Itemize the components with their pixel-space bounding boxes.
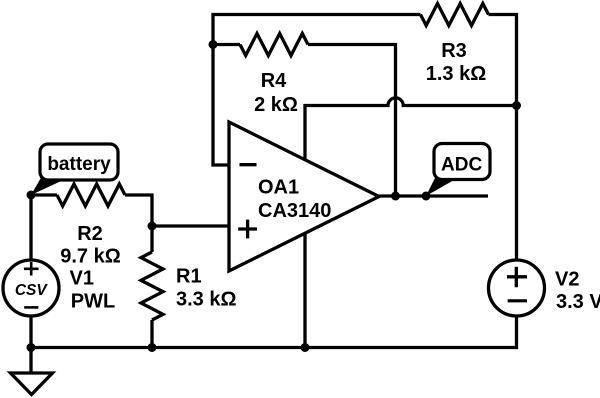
wire V1 top (29, 195, 32, 260)
node ground rail R1 dot (148, 343, 157, 352)
wire op-amp V+ pin with hop over R4 leg (305, 98, 517, 160)
wire op-amp output (379, 194, 488, 197)
svg-text:3.3 V: 3.3 V (556, 291, 600, 313)
battery callout box (40, 144, 118, 180)
op-amp non-inverting input marker (238, 220, 257, 239)
voltage source V2 (489, 260, 545, 316)
wire node to R1 top (150, 226, 153, 252)
wire ground rail (31, 316, 517, 348)
resistor R4 (240, 34, 308, 56)
op-amp inverting input marker (240, 163, 257, 166)
svg-text:ADC: ADC (441, 155, 482, 176)
svg-text:CA3140: CA3140 (258, 200, 331, 222)
V1 minus sign (24, 306, 38, 309)
wire R4 right down to output (308, 45, 396, 197)
node ADC probe dot (422, 192, 431, 201)
node R4 left junction dot (209, 40, 218, 49)
svg-text:PWL: PWL (71, 291, 115, 313)
V1 plus sign (24, 262, 39, 276)
wire battery node to R2 (31, 193, 57, 196)
node ground rail op-amp dot (301, 343, 310, 352)
resistor R1 (141, 252, 163, 320)
svg-text:1.3 kΩ: 1.3 kΩ (426, 63, 487, 85)
battery callout pointer (31, 176, 72, 195)
svg-text:9.7 kΩ: 9.7 kΩ (60, 246, 121, 268)
V2 plus sign (507, 267, 527, 288)
node output junction dot (391, 192, 400, 201)
node battery junction dot (27, 191, 36, 200)
svg-text:R2: R2 (77, 223, 103, 245)
V2 minus sign (508, 299, 527, 302)
node non-inverting input junction dot (148, 222, 157, 231)
ADC callout pointer (426, 176, 461, 196)
wire R1 bottom to ground rail (150, 320, 153, 348)
svg-text:R4: R4 (261, 70, 287, 92)
wire R2 right to non-inverting input (125, 195, 229, 226)
wire inverting-input net: op-amp minus to top rail (213, 15, 421, 166)
svg-text:3.3 kΩ: 3.3 kΩ (176, 288, 237, 310)
wire V1 bottom to ground (29, 316, 32, 372)
ground (11, 373, 53, 395)
voltage source V1 (3, 260, 59, 316)
ADC callout box (434, 144, 490, 180)
svg-text:CSV: CSV (15, 282, 49, 299)
svg-text:2 kΩ: 2 kΩ (254, 94, 298, 116)
svg-text:OA1: OA1 (258, 176, 299, 198)
resistor R3 (421, 4, 489, 26)
wire op-amp V- pin to ground rail (303, 233, 306, 348)
svg-text:battery: battery (47, 154, 111, 175)
wire R3 right to V+ column (489, 15, 517, 261)
wire R4 branch from node to resistor (213, 43, 240, 46)
svg-text:R3: R3 (441, 40, 467, 62)
op-amp OA1 triangle (229, 122, 379, 271)
resistor R2 (57, 184, 125, 206)
node V+ rail junction dot (512, 101, 521, 110)
node ground rail V1 dot (27, 343, 36, 352)
svg-text:V1: V1 (70, 268, 94, 290)
svg-text:V2: V2 (555, 269, 579, 291)
svg-text:R1: R1 (176, 266, 202, 288)
